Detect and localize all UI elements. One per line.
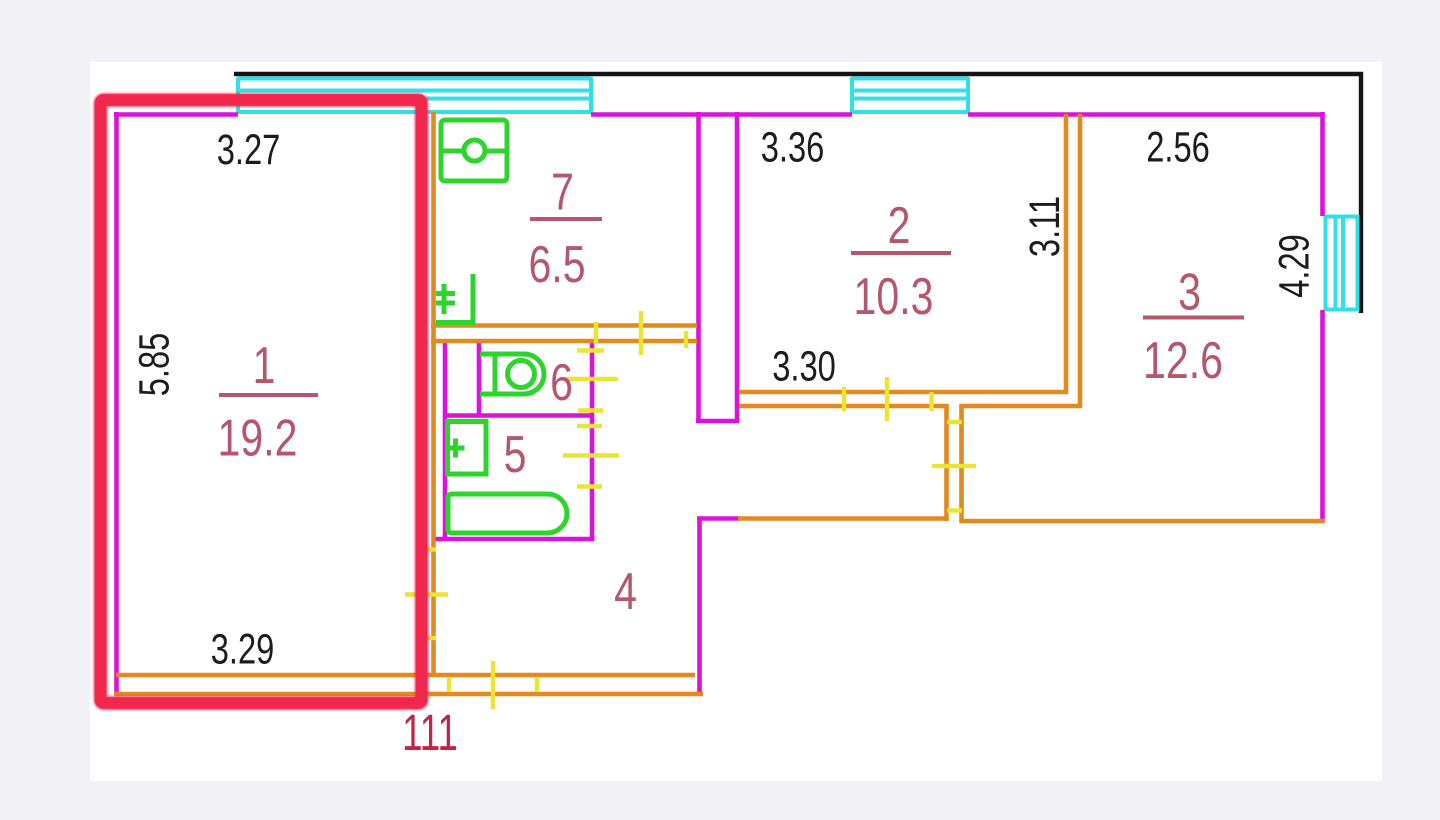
opening tick bath-top large xyxy=(639,311,643,355)
opening tick bath-top small 1 xyxy=(594,322,598,344)
bathtub xyxy=(448,494,567,533)
svg-text:1: 1 xyxy=(253,336,276,394)
yellow ticks xyxy=(405,311,976,709)
black facade line top xyxy=(234,74,1361,313)
svg-text:3.36: 3.36 xyxy=(761,123,825,171)
opening tick bath-right small 4 xyxy=(577,484,602,488)
wall right below window xyxy=(1320,310,1325,523)
wall jamb under door rooms 7/2 xyxy=(696,419,740,424)
wall corridor jamb horizontal xyxy=(697,516,740,521)
svg-text:3.30: 3.30 xyxy=(772,342,836,390)
svg-text:3.11: 3.11 xyxy=(1021,196,1069,257)
svg-text:3: 3 xyxy=(1178,263,1201,321)
opening tick bottom-wall small 1 xyxy=(447,678,451,692)
sink room5 xyxy=(448,422,487,475)
svg-text:3.29: 3.29 xyxy=(211,625,275,673)
wall below room7 upper xyxy=(431,323,697,328)
toilet xyxy=(480,354,544,394)
svg-text:19.2: 19.2 xyxy=(218,409,298,467)
opening tick room2-bottom large xyxy=(885,377,889,421)
opening tick room2-bottom small 1 xyxy=(842,387,846,411)
wall corridor vertical double left xyxy=(944,404,949,521)
opening tick corridor-vert large xyxy=(932,464,976,468)
wall rooms 6/5 divider xyxy=(443,413,594,418)
svg-text:5: 5 xyxy=(504,425,527,483)
wall room2 bottom lower right xyxy=(960,404,1083,409)
wall room2 bottom upper xyxy=(739,390,1068,395)
sink room7 xyxy=(471,274,476,323)
svg-text:6: 6 xyxy=(550,353,573,411)
wall divider rooms 2/3 left line xyxy=(1064,114,1069,394)
opening tick bath-right large 2 xyxy=(563,453,619,457)
wall corridor bottom xyxy=(738,516,949,521)
green fixtures xyxy=(436,120,567,533)
wall room2 left xyxy=(735,112,740,423)
opening tick bottom-wall large xyxy=(491,661,495,709)
magenta walls xyxy=(114,112,1325,696)
plan canvas xyxy=(90,62,1382,781)
wall corridor vertical double right xyxy=(959,404,964,523)
svg-text:4.29: 4.29 xyxy=(1270,234,1318,298)
wall bottom upper xyxy=(116,673,695,678)
svg-text:6.5: 6.5 xyxy=(528,235,585,293)
wall bathroom niche partition xyxy=(477,339,482,416)
wall bottom lower xyxy=(114,692,703,697)
opening tick bath-right small 3 xyxy=(577,424,602,428)
opening tick corridor-vert small 2 xyxy=(947,508,962,512)
opening tick room1-right small 2 xyxy=(422,636,436,640)
opening tick room2-bottom small 2 xyxy=(929,392,933,411)
opening tick bath-right large 1 xyxy=(564,377,618,381)
wall vertical room1 right side xyxy=(431,112,436,677)
dimension texts xyxy=(130,123,1318,673)
opening tick bottom-wall small 2 xyxy=(535,678,539,692)
svg-text:3.27: 3.27 xyxy=(217,126,281,174)
wall bathroom left xyxy=(443,339,448,541)
window W3 right xyxy=(1326,215,1358,311)
washing machine xyxy=(441,120,507,181)
wall divider rooms 2/3 right line xyxy=(1078,114,1083,408)
room labels xyxy=(218,163,1244,620)
svg-text:12.6: 12.6 xyxy=(1143,331,1223,389)
wall below room7 lower xyxy=(431,339,697,344)
wall top-right segment xyxy=(968,112,1325,117)
svg-text:7: 7 xyxy=(551,163,574,221)
opening tick bath-top small 2 xyxy=(684,331,688,348)
wall room4 right xyxy=(697,517,702,694)
wall left outer xyxy=(114,112,119,696)
orange walls xyxy=(114,112,1325,694)
wall top-middle segment xyxy=(591,112,852,117)
wall bathroom bottom xyxy=(434,537,595,542)
opening tick bath-right small 1 xyxy=(577,348,604,352)
wall bathroom right xyxy=(590,339,595,541)
svg-text:2: 2 xyxy=(888,196,911,254)
opening tick corridor-vert small 1 xyxy=(947,420,962,424)
wall top-left segment xyxy=(114,112,238,117)
svg-text:2.56: 2.56 xyxy=(1146,123,1210,171)
wall room2 bottom lower left xyxy=(739,404,949,409)
opening tick room1-right large xyxy=(405,592,448,596)
wall room3 bottom xyxy=(960,519,1325,524)
opening tick room1-right small 1 xyxy=(422,547,436,551)
svg-text:5.85: 5.85 xyxy=(130,333,178,397)
wall right above window xyxy=(1320,112,1325,216)
red highlight room 1 xyxy=(101,100,422,703)
window W1 top-left xyxy=(238,77,591,114)
svg-text:111: 111 xyxy=(402,705,458,761)
svg-text:10.3: 10.3 xyxy=(854,267,934,325)
svg-text:4: 4 xyxy=(614,562,637,620)
opening tick bath-right small 2 xyxy=(578,408,603,412)
window W2 top-middle xyxy=(852,77,968,114)
wall room7 right xyxy=(696,112,701,423)
